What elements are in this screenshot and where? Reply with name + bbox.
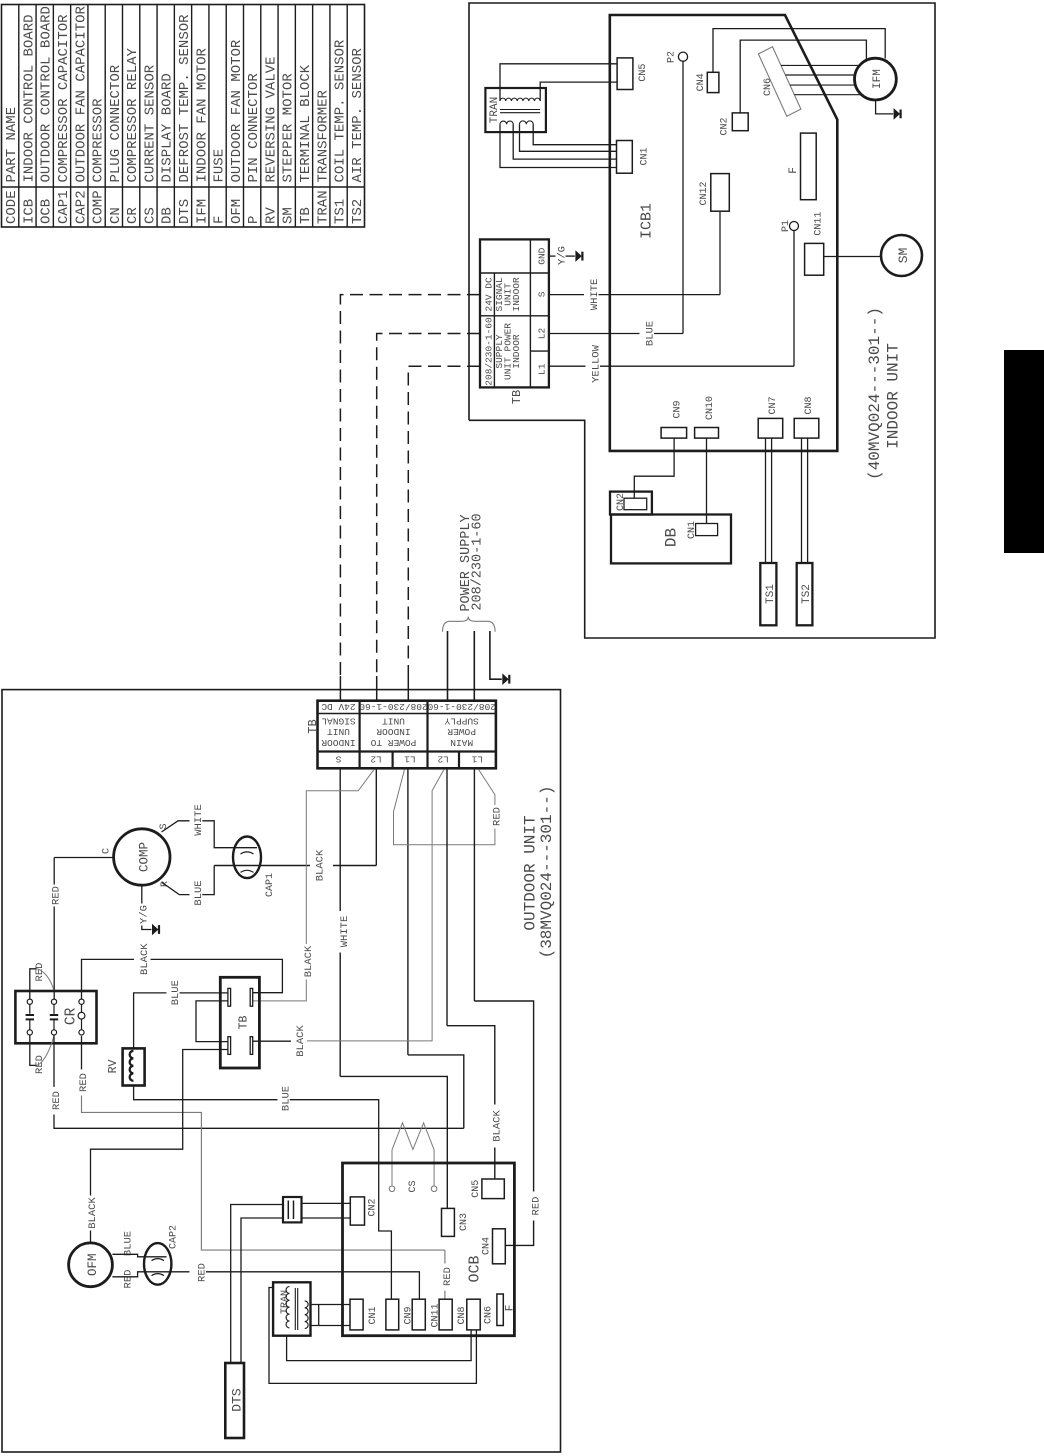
wire CAP2 to CN11 (RED) bbox=[167, 1263, 420, 1299]
svg-text:POWER TO: POWER TO bbox=[370, 737, 416, 748]
svg-text:MAIN: MAIN bbox=[450, 737, 473, 748]
svg-text:CN4: CN4 bbox=[696, 73, 707, 91]
svg-text:INDOOR FAN MOTOR: INDOOR FAN MOTOR bbox=[194, 47, 210, 182]
connector CN1 (OCB) bbox=[350, 1299, 379, 1330]
wire OFM to CAP2 top (BLUE) bbox=[112, 1231, 149, 1257]
svg-text:L2: L2 bbox=[370, 754, 382, 765]
svg-text:OFM: OFM bbox=[86, 1254, 100, 1277]
board ICB1 outline bbox=[610, 15, 838, 451]
terminal block TB (outdoor component) bbox=[220, 977, 259, 1068]
connector CN4 bbox=[696, 72, 719, 92]
svg-text:CURRENT SENSOR: CURRENT SENSOR bbox=[142, 64, 158, 182]
svg-text:RED: RED bbox=[442, 1267, 454, 1286]
svg-text:TERMINAL BLOCK: TERMINAL BLOCK bbox=[298, 64, 314, 182]
sensor TS1 (coil temp.) bbox=[760, 563, 777, 625]
svg-text:BLUE: BLUE bbox=[280, 1086, 292, 1111]
terminal block TB (outdoor) bbox=[318, 701, 496, 769]
svg-text:WHITE: WHITE bbox=[193, 804, 205, 836]
svg-text:TS2: TS2 bbox=[801, 584, 813, 604]
svg-text:ICB: ICB bbox=[21, 199, 37, 224]
svg-text:TB: TB bbox=[298, 207, 314, 224]
svg-text:CN2: CN2 bbox=[616, 493, 627, 511]
legend row DB bbox=[160, 73, 176, 224]
svg-text:AIR TEMP. SENSOR: AIR TEMP. SENSOR bbox=[350, 47, 366, 182]
wire P1 to L1 terminal (YELLOW) bbox=[793, 231, 795, 367]
svg-text:TB: TB bbox=[306, 719, 320, 733]
svg-text:C: C bbox=[101, 848, 112, 854]
wire L1 indoor-outdoor (dashed) bbox=[408, 366, 480, 701]
svg-text:S: S bbox=[537, 291, 548, 297]
legend row OCB bbox=[39, 6, 55, 224]
svg-text:COMP: COMP bbox=[138, 842, 152, 872]
svg-text:CN5: CN5 bbox=[471, 1180, 482, 1198]
svg-text:FUSE: FUSE bbox=[212, 149, 228, 183]
svg-text:POWER: POWER bbox=[447, 726, 476, 737]
svg-text:24V DC: 24V DC bbox=[321, 701, 356, 712]
svg-text:UNIT: UNIT bbox=[327, 726, 350, 737]
legend row CAP1 bbox=[56, 14, 72, 224]
legend row COMP bbox=[91, 98, 107, 224]
svg-text:L1: L1 bbox=[537, 363, 548, 375]
svg-text:BLACK: BLACK bbox=[87, 1197, 99, 1229]
connector CN1 (on DB) bbox=[687, 521, 717, 539]
svg-text:TS1: TS1 bbox=[333, 199, 349, 224]
svg-text:CN10: CN10 bbox=[705, 396, 716, 420]
svg-text:S: S bbox=[159, 823, 170, 829]
connector CN2 (ICB1) bbox=[720, 113, 749, 136]
wire TRAN primary to CN5 (2 wires) bbox=[500, 64, 617, 101]
svg-text:RED: RED bbox=[51, 1091, 63, 1110]
svg-text:RED: RED bbox=[531, 1197, 543, 1216]
label indoor unit title bbox=[866, 307, 903, 480]
svg-text:R: R bbox=[160, 881, 171, 887]
connector CN5 (OCB) bbox=[471, 1179, 504, 1199]
wire TRAN secondary to CN1 (4 wires) bbox=[500, 124, 617, 167]
wire CN2 to IFM bbox=[740, 40, 866, 113]
wire S terminal to CN12 (WHITE) bbox=[549, 279, 720, 311]
wire TRAN secondary to CN1 (2 wires) bbox=[311, 1305, 351, 1326]
wire CN11 to SM bbox=[824, 256, 882, 258]
svg-text:BLACK: BLACK bbox=[491, 1110, 503, 1142]
wire TRAN bottom to CN6 bbox=[287, 1330, 472, 1361]
legend row TS1 bbox=[333, 39, 349, 224]
svg-text:RED: RED bbox=[78, 1073, 90, 1092]
board OCB outline bbox=[343, 1163, 515, 1336]
svg-text:CN6: CN6 bbox=[763, 78, 774, 96]
wire L2(main) down to CN5 (BLACK) bbox=[447, 768, 503, 1179]
svg-text:CN12: CN12 bbox=[699, 181, 710, 205]
svg-text:OUTDOOR UNIT: OUTDOOR UNIT bbox=[521, 815, 539, 930]
svg-text:SM: SM bbox=[281, 207, 297, 224]
svg-text:BLUE: BLUE bbox=[193, 880, 205, 905]
legend row CAP2 bbox=[73, 5, 89, 224]
wire CR col1 top hook (RED) bbox=[30, 963, 54, 1000]
svg-text:YELLOW: YELLOW bbox=[591, 344, 603, 383]
svg-text:CN1: CN1 bbox=[640, 147, 651, 165]
brace power supply bbox=[443, 617, 496, 632]
svg-text:F: F bbox=[788, 167, 800, 174]
board DB (display board) bbox=[611, 515, 731, 564]
svg-text:INDOOR UNIT: INDOOR UNIT bbox=[885, 343, 903, 449]
wire L2(main) alt path to TB component (gray) bbox=[295, 769, 444, 1056]
svg-text:CN8: CN8 bbox=[804, 396, 815, 414]
legend row CS bbox=[142, 64, 158, 224]
wire CN4 to IFM bbox=[713, 29, 885, 73]
wire L1(indoor) down to CR col2 loop bbox=[408, 768, 464, 1128]
wire RV top to TB (BLUE) bbox=[134, 980, 228, 1048]
svg-text:OCB: OCB bbox=[39, 199, 55, 224]
svg-text:CODE: CODE bbox=[4, 190, 20, 224]
legend row F bbox=[212, 149, 228, 224]
svg-text:IFM: IFM bbox=[194, 199, 210, 224]
legend row RV bbox=[263, 56, 279, 224]
svg-text:PIN CONNECTOR: PIN CONNECTOR bbox=[246, 73, 262, 183]
wire power supply L1 feed bbox=[473, 631, 475, 701]
wire COMP S to CAP1 (WHITE) bbox=[162, 804, 258, 847]
svg-text:INDOOR: INDOOR bbox=[376, 726, 411, 737]
svg-text:L2: L2 bbox=[537, 328, 548, 340]
sensor TS2 (air temp.) bbox=[797, 563, 813, 625]
connector CN9 (OCB) bbox=[386, 1299, 415, 1330]
svg-text:208/230-1-60: 208/230-1-60 bbox=[427, 701, 496, 712]
connector CN7 bbox=[758, 396, 783, 438]
svg-text:PLUG CONNECTOR: PLUG CONNECTOR bbox=[108, 64, 124, 182]
svg-text:DTS: DTS bbox=[230, 1388, 245, 1412]
svg-text:BLACK: BLACK bbox=[295, 1025, 307, 1057]
wire CR col3 bottom (RED) to CN8 bbox=[78, 1036, 454, 1299]
svg-text:WHITE: WHITE bbox=[339, 916, 351, 948]
wire CR col1 bottom hook (RED) bbox=[30, 1035, 54, 1074]
wire CN12 to S terminal (WHITE) bbox=[719, 211, 721, 294]
label outdoor unit title bbox=[521, 786, 556, 959]
svg-text:S: S bbox=[335, 754, 341, 765]
svg-text:REVERSING VALVE: REVERSING VALVE bbox=[263, 56, 279, 182]
connector CN8 (indoor) bbox=[794, 396, 819, 438]
wire COMP C to CR col2 (RED) bbox=[51, 858, 114, 1000]
legend row TB bbox=[298, 64, 314, 224]
connector CN6 (rotated, to fan motor) bbox=[758, 47, 801, 116]
svg-text:STEPPER MOTOR: STEPPER MOTOR bbox=[281, 73, 297, 183]
svg-text:RED: RED bbox=[123, 1270, 135, 1289]
svg-text:COIL TEMP. SENSOR: COIL TEMP. SENSOR bbox=[333, 39, 349, 182]
svg-text:CN11: CN11 bbox=[814, 212, 825, 236]
svg-text:COMPRESSOR: COMPRESSOR bbox=[91, 98, 107, 183]
svg-text:CAP1: CAP1 bbox=[56, 190, 72, 224]
wire L2(indoor) alt path to TB component (gray, BLACK) bbox=[253, 769, 374, 1001]
terminal block TB (indoor) bbox=[480, 239, 549, 387]
svg-text:PART NAME: PART NAME bbox=[4, 107, 20, 183]
wire L1 terminal to P1 (YELLOW) bbox=[549, 344, 794, 383]
svg-text:TB: TB bbox=[510, 390, 524, 404]
svg-text:CN1: CN1 bbox=[368, 1306, 379, 1324]
svg-text:RED: RED bbox=[51, 886, 63, 905]
node black marker (right margin) bbox=[1004, 350, 1044, 553]
svg-text:IFM: IFM bbox=[872, 69, 884, 89]
svg-text:TS1: TS1 bbox=[765, 584, 777, 604]
svg-text:CN5: CN5 bbox=[638, 64, 649, 82]
wire COMP R to CAP1 (BLUE) bbox=[162, 866, 214, 906]
connector coupler (DTS to CN2) bbox=[283, 1197, 302, 1222]
wire L2 terminal to P2 (BLUE) bbox=[549, 321, 683, 346]
wire CN7 to TS1 (pair) bbox=[766, 438, 772, 563]
svg-text:CN9: CN9 bbox=[672, 400, 683, 418]
wire S terminal down (WHITE) to CN3 bbox=[339, 768, 448, 1208]
svg-text:P: P bbox=[246, 216, 262, 224]
legend row CODE bbox=[4, 107, 20, 224]
svg-text:RV: RV bbox=[263, 207, 279, 224]
wire coupler to CN2 (2 wires) bbox=[302, 1203, 351, 1218]
ground (below IFM) bbox=[876, 100, 901, 120]
wire CR col3 top (BLACK) to TB component bbox=[82, 943, 283, 999]
svg-text:CN: CN bbox=[108, 207, 124, 224]
connector CN4 (OCB) bbox=[482, 1229, 506, 1264]
svg-text:COMPRESSOR RELAY: COMPRESSOR RELAY bbox=[125, 47, 141, 182]
svg-text:RED: RED bbox=[34, 1055, 46, 1074]
svg-text:208/230-1-60: 208/230-1-60 bbox=[471, 513, 486, 610]
svg-text:TRAN: TRAN bbox=[315, 190, 331, 224]
svg-text:CAP1: CAP1 bbox=[265, 873, 276, 897]
legend row CR bbox=[125, 47, 141, 224]
connector CN6 (OCB) bbox=[467, 1299, 495, 1330]
legend row TS2 bbox=[350, 47, 366, 224]
wire L1(main) down to CN4 (RED) bbox=[474, 768, 542, 1245]
legend row IFM bbox=[194, 47, 210, 224]
wire S indoor-outdoor (dashed) bbox=[340, 295, 480, 701]
wire L2(indoor) straight down to CAP1 line (BLACK) bbox=[214, 768, 376, 881]
svg-text:TRANSFORMER: TRANSFORMER bbox=[315, 89, 331, 182]
connector CN2 (OCB) bbox=[350, 1197, 378, 1225]
svg-text:CS: CS bbox=[408, 1180, 419, 1192]
svg-text:ICB1: ICB1 bbox=[639, 203, 656, 239]
svg-text:F: F bbox=[504, 1305, 516, 1312]
svg-text:GND: GND bbox=[537, 247, 548, 264]
pin P2 bbox=[667, 51, 688, 63]
wire P2 to BLUE bbox=[682, 61, 684, 333]
label POWER SUPPLY bbox=[459, 513, 486, 611]
svg-text:TRAN: TRAN bbox=[489, 97, 501, 123]
motor OFM (outdoor fan motor) bbox=[69, 1243, 113, 1287]
motor IFM (indoor fan motor) bbox=[855, 58, 897, 100]
wire L2 indoor-outdoor (dashed) bbox=[377, 334, 480, 701]
svg-text:(38MVQ024---301--): (38MVQ024---301--) bbox=[538, 786, 556, 959]
wire OFM to CAP2 bottom (RED) bbox=[112, 1270, 149, 1289]
svg-text:RED: RED bbox=[491, 807, 503, 826]
wire L1(indoor)-L1(main) jumper (gray, RED) bbox=[394, 769, 504, 844]
svg-text:F: F bbox=[212, 216, 228, 224]
svg-text:OFM: OFM bbox=[229, 199, 245, 224]
svg-text:RED: RED bbox=[34, 963, 46, 982]
transformer TRAN (indoor) bbox=[485, 88, 546, 132]
connector CN1 (ICB1) bbox=[617, 141, 651, 174]
svg-text:BLACK: BLACK bbox=[303, 945, 315, 977]
svg-text:CN7: CN7 bbox=[768, 396, 779, 414]
svg-text:OUTDOOR CONTROL BOARD: OUTDOOR CONTROL BOARD bbox=[39, 6, 55, 182]
motor SM (stepper motor) bbox=[881, 235, 922, 276]
svg-text:OUTDOOR FAN MOTOR: OUTDOOR FAN MOTOR bbox=[229, 39, 245, 182]
svg-text:CR: CR bbox=[125, 207, 141, 224]
svg-text:OUTDOOR FAN CAPACITOR: OUTDOOR FAN CAPACITOR bbox=[73, 5, 89, 182]
svg-text:INDOOR: INDOOR bbox=[321, 737, 356, 748]
svg-text:DB: DB bbox=[662, 528, 680, 547]
legend row SM bbox=[281, 73, 297, 224]
wire DTS to coupler (2 wires) bbox=[231, 1205, 283, 1364]
svg-text:CN4: CN4 bbox=[482, 1237, 493, 1255]
svg-text:CN2: CN2 bbox=[368, 1198, 379, 1216]
ground (indoor Y/G) bbox=[575, 250, 581, 262]
wire CN8 to TS2 (pair) bbox=[802, 438, 808, 563]
legend row P bbox=[246, 73, 262, 224]
svg-text:24V DC: 24V DC bbox=[484, 277, 495, 312]
wire CN10 to DB CN1 bbox=[706, 438, 708, 523]
svg-text:COMPRESSOR CAPACITOR: COMPRESSOR CAPACITOR bbox=[56, 14, 72, 183]
svg-text:CAP2: CAP2 bbox=[73, 190, 89, 224]
capacitor CAP2 bbox=[144, 1225, 180, 1285]
sensor CS (current sensor) bbox=[389, 1123, 437, 1193]
wire CN6 to IFM (4 wires) bbox=[781, 65, 864, 94]
svg-text:CAP2: CAP2 bbox=[169, 1225, 180, 1249]
indoor unit outer boundary bbox=[469, 3, 935, 638]
connector CN12 bbox=[699, 174, 729, 212]
svg-text:P2: P2 bbox=[667, 51, 678, 63]
svg-text:DEFROST TEMP. SENSOR: DEFROST TEMP. SENSOR bbox=[177, 14, 193, 183]
svg-text:CN1: CN1 bbox=[687, 521, 698, 539]
connector CN8 (OCB) bbox=[439, 1299, 468, 1330]
svg-text:RV: RV bbox=[107, 1060, 120, 1074]
svg-text:208/230-1-60: 208/230-1-60 bbox=[359, 701, 428, 712]
wire COMP Y/G to ground bbox=[138, 885, 151, 929]
svg-text:TB: TB bbox=[238, 1016, 251, 1030]
svg-text:Y/G: Y/G bbox=[138, 905, 150, 924]
svg-text:SIGNAL: SIGNAL bbox=[321, 715, 356, 726]
svg-text:L1: L1 bbox=[404, 754, 416, 765]
ground (COMP) bbox=[152, 924, 158, 936]
fuse F (OCB) bbox=[497, 1294, 516, 1326]
svg-text:SUPPLY: SUPPLY bbox=[444, 715, 479, 726]
legend row ICB bbox=[21, 14, 37, 224]
svg-text:COMP: COMP bbox=[91, 190, 107, 224]
capacitor CAP1 bbox=[233, 837, 276, 898]
svg-text:CS: CS bbox=[142, 207, 158, 224]
svg-text:TS2: TS2 bbox=[350, 199, 366, 224]
motor COMP (compressor) bbox=[114, 829, 170, 885]
legend row OFM bbox=[229, 39, 245, 224]
svg-text:DB: DB bbox=[160, 207, 176, 224]
svg-text:BLACK: BLACK bbox=[139, 943, 151, 975]
svg-text:DISPLAY BOARD: DISPLAY BOARD bbox=[160, 73, 176, 182]
svg-text:INDOOR CONTROL BOARD: INDOOR CONTROL BOARD bbox=[21, 14, 37, 182]
transformer TRAN (outdoor) bbox=[273, 1282, 310, 1335]
svg-text:CN6: CN6 bbox=[484, 1306, 495, 1324]
svg-text:(40MVQ024---301--): (40MVQ024---301--) bbox=[866, 307, 884, 480]
svg-text:L2: L2 bbox=[437, 754, 449, 765]
svg-text:208/230-1-60: 208/230-1-60 bbox=[484, 317, 495, 386]
fuse F (ICB1) bbox=[788, 133, 816, 200]
connector CN3 (OCB) bbox=[442, 1208, 471, 1236]
connector CN2 (on DB) bbox=[610, 492, 652, 515]
connector CN11 bbox=[805, 212, 825, 276]
svg-text:L1: L1 bbox=[471, 754, 483, 765]
wire GND to ground Y/G bbox=[549, 246, 575, 265]
outdoor unit outer boundary bbox=[2, 690, 561, 1452]
svg-text:INDOOR: INDOOR bbox=[511, 334, 522, 369]
svg-text:UNIT: UNIT bbox=[382, 715, 405, 726]
svg-text:CN9: CN9 bbox=[404, 1306, 415, 1324]
connector CN11 (OCB) bbox=[412, 1299, 441, 1330]
wire power supply L2 feed bbox=[447, 631, 449, 701]
svg-text:SM: SM bbox=[896, 248, 911, 264]
svg-text:BLUE: BLUE bbox=[123, 1231, 135, 1256]
svg-text:RED: RED bbox=[196, 1263, 208, 1282]
wire RV bottom to CN9 (BLUE) bbox=[134, 1086, 392, 1300]
svg-text:OCB: OCB bbox=[467, 1255, 484, 1282]
legend row TRAN bbox=[315, 89, 331, 224]
svg-text:CN2: CN2 bbox=[720, 117, 731, 135]
connector CN5 (ICB1) bbox=[617, 58, 649, 90]
svg-text:CN3: CN3 bbox=[459, 1213, 470, 1231]
svg-text:P1: P1 bbox=[781, 220, 792, 232]
wire TB lower-right to L2 main (BLACK) bbox=[253, 1040, 291, 1042]
relay CR (compressor relay) bbox=[15, 991, 96, 1043]
valve RV (reversing valve) bbox=[107, 1048, 145, 1085]
legend row DTS bbox=[177, 14, 193, 224]
legend table grid bbox=[2, 5, 365, 228]
svg-text:CR: CR bbox=[64, 1007, 80, 1025]
wire CR col2 bottom (RED) to long horizontal bbox=[51, 1035, 464, 1128]
wire TRAN left to CN6 bbox=[269, 1288, 476, 1384]
pin P1 bbox=[781, 220, 799, 232]
connector CN10 bbox=[695, 396, 719, 438]
svg-text:DTS: DTS bbox=[177, 199, 193, 224]
sensor DTS (defrost temp.) bbox=[225, 1363, 244, 1438]
wire TB to OFM (BLACK) bbox=[87, 1050, 228, 1243]
wire power supply ground bbox=[490, 631, 509, 685]
svg-text:BLACK: BLACK bbox=[315, 849, 327, 881]
svg-text:INDOOR: INDOOR bbox=[511, 277, 522, 312]
connector CN9 (indoor) bbox=[661, 400, 687, 438]
wire CN9 to DB CN2 bbox=[634, 438, 674, 498]
wire TB jumper left side bbox=[196, 1001, 228, 1042]
legend row CN bbox=[108, 64, 124, 224]
